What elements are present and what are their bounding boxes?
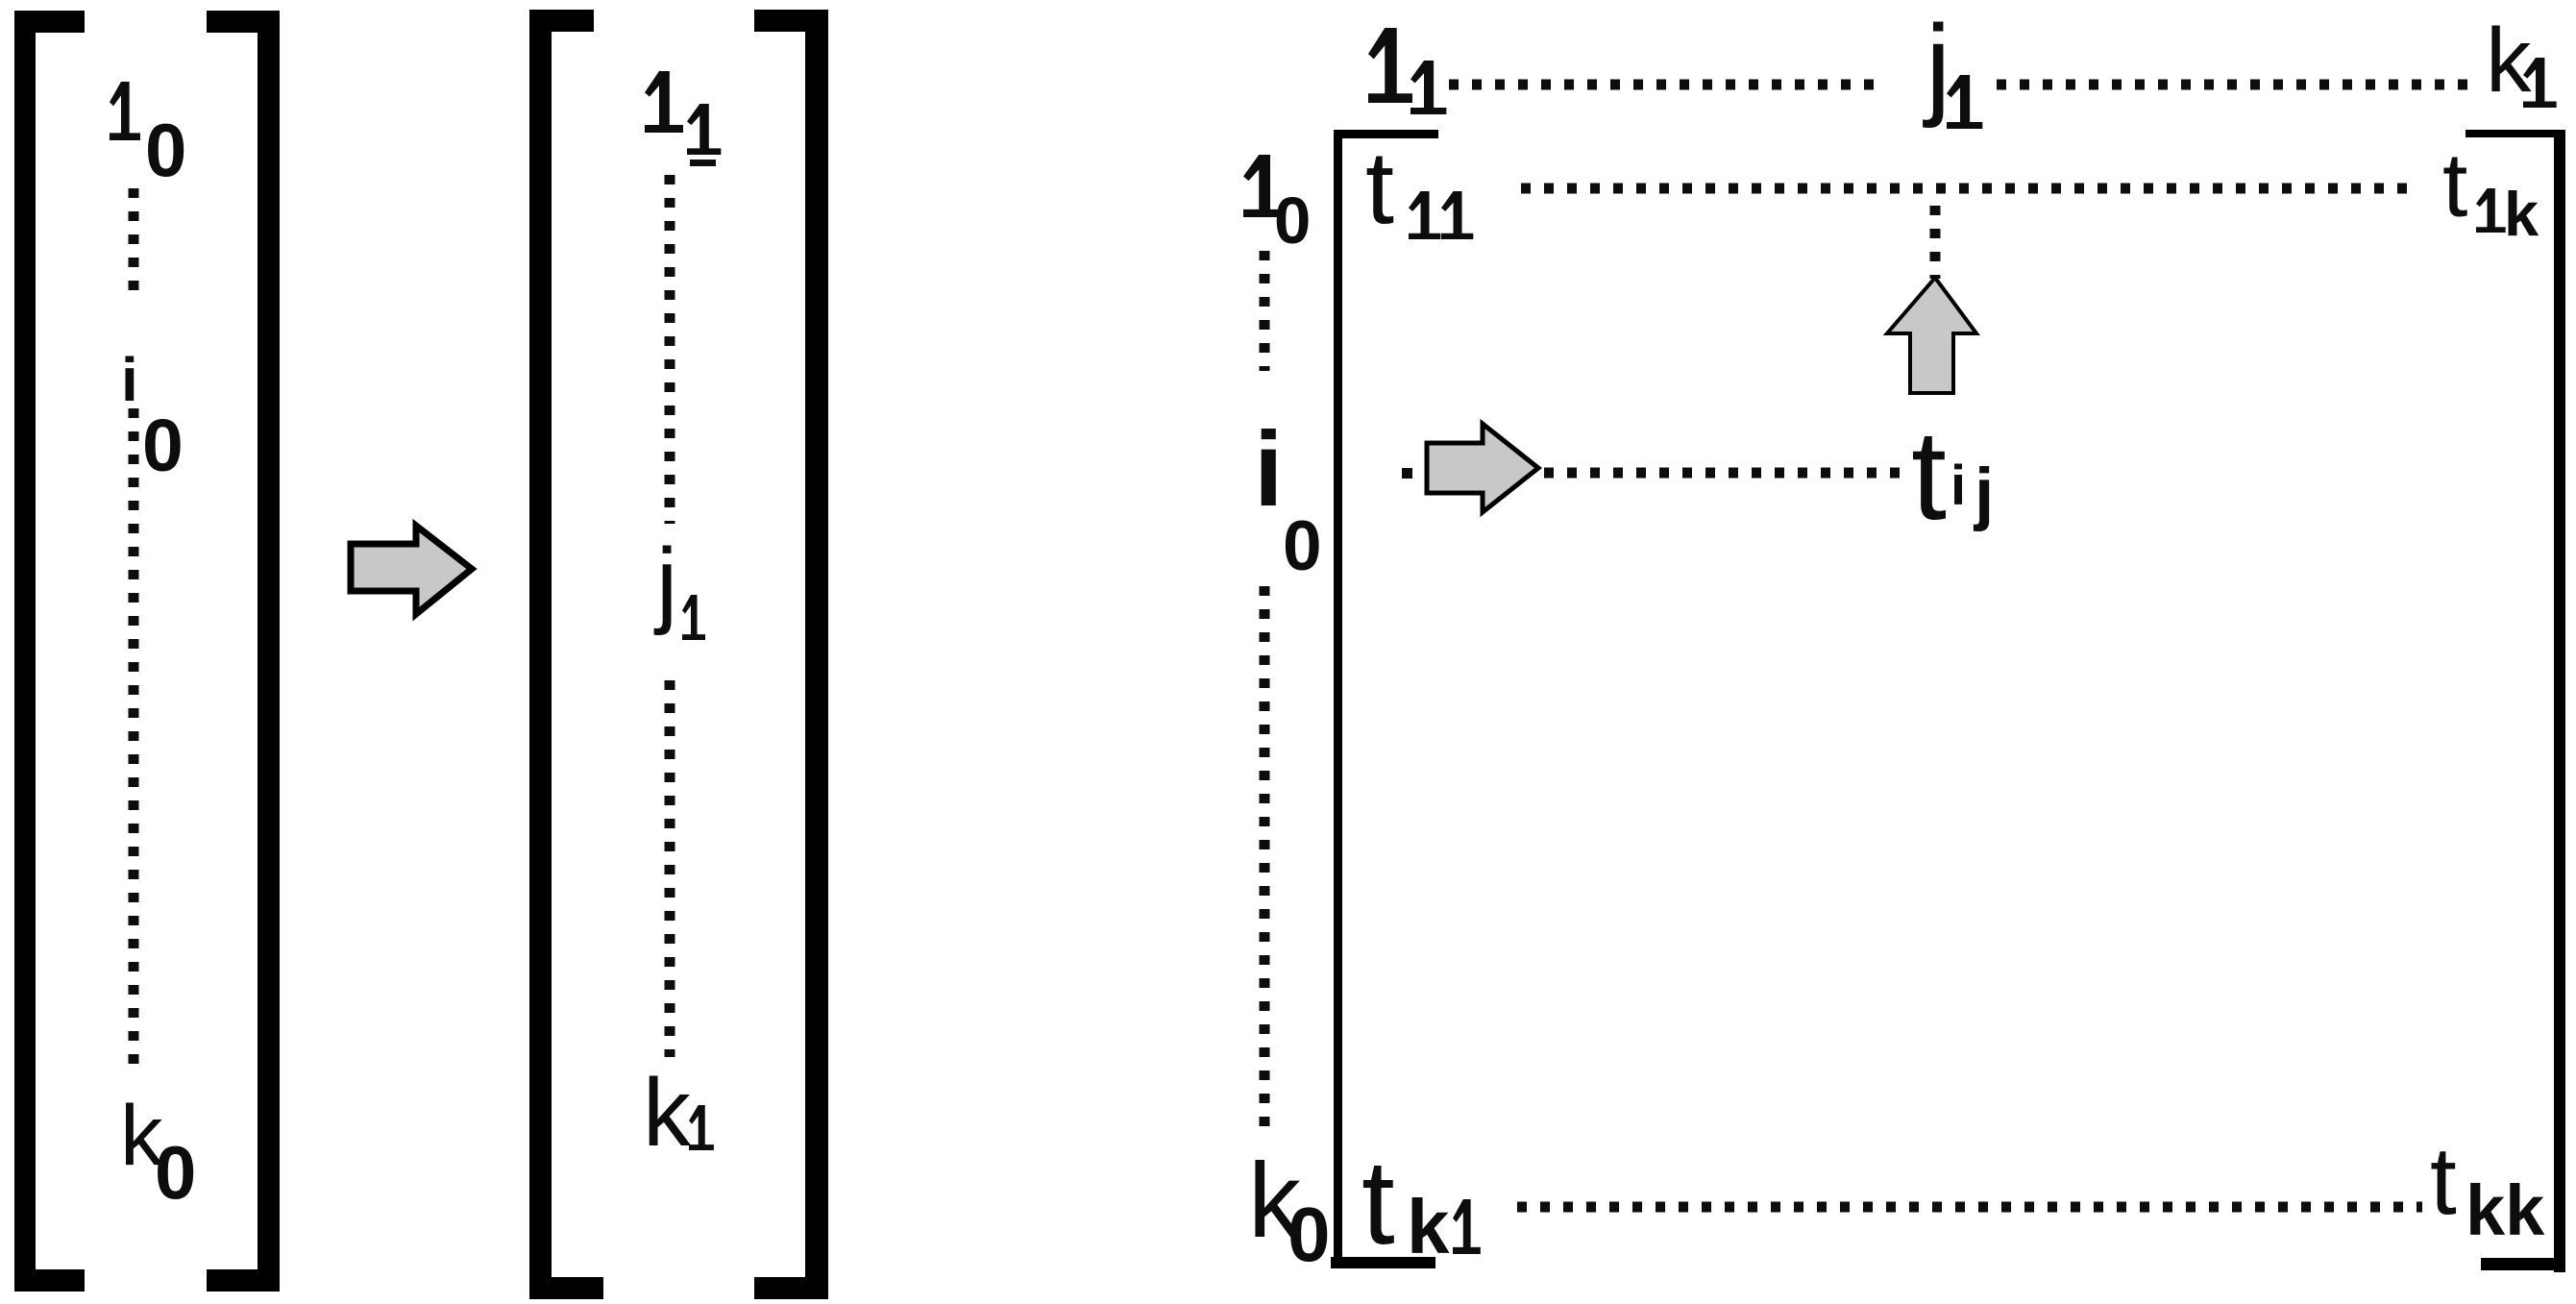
svg-text:j: j — [1973, 455, 1994, 532]
matrix bottom-left corner bar — [1331, 1257, 1435, 1268]
matrix top-left corner bar — [1334, 130, 1438, 138]
middle vector bracket ] — [754, 10, 828, 1299]
dotted line — [129, 408, 139, 1067]
svg-text:i: i — [121, 345, 138, 414]
row label 1_0 — [1243, 155, 1311, 258]
big gray arrow between vectors — [351, 526, 472, 614]
svg-text:0: 0 — [1274, 184, 1311, 258]
dotted line — [1521, 184, 2407, 194]
svg-text:t: t — [2430, 1127, 2457, 1235]
svg-text:t: t — [1362, 1136, 1395, 1269]
label 1_1 top of middle vector — [645, 71, 721, 166]
matrix right bracket line — [2554, 130, 2565, 1272]
svg-text:0: 0 — [145, 108, 186, 192]
left vector bracket [ — [14, 11, 85, 1292]
row label k_0 — [1248, 1142, 1331, 1277]
entry t_1k — [2442, 135, 2539, 249]
left vector bracket ] — [207, 11, 280, 1292]
svg-text:j: j — [1923, 2, 1950, 130]
svg-text:j: j — [653, 529, 677, 636]
column label k_1 — [2486, 10, 2557, 111]
middle vector bracket [ — [529, 10, 603, 1299]
svg-text:0: 0 — [142, 405, 184, 487]
column label 1_1 — [1368, 28, 1446, 114]
dotted line — [1997, 80, 2475, 90]
svg-text:t: t — [1911, 405, 1947, 547]
dotted line — [665, 175, 675, 524]
matrix top-right corner bar — [2466, 130, 2565, 137]
dotted line — [1260, 586, 1270, 1134]
svg-text:k: k — [2486, 10, 2532, 111]
label i_0 middle of left vector — [121, 345, 184, 487]
vertical dotted line under j column — [1930, 206, 1941, 279]
svg-text:t: t — [1365, 129, 1394, 245]
entry t_11 — [1365, 129, 1473, 245]
svg-text:kk: kk — [2466, 1170, 2545, 1250]
svg-text:k: k — [2504, 179, 2539, 249]
label k_0 bottom of left vector — [120, 1087, 196, 1215]
label k_1 bottom of middle vector — [643, 1059, 714, 1167]
matrix bottom-right corner bar — [2481, 1258, 2565, 1270]
dotted line — [1517, 1202, 2422, 1213]
dotted line — [1260, 251, 1270, 371]
svg-text:k: k — [1407, 1184, 1450, 1269]
svg-text:k: k — [643, 1059, 692, 1167]
column label j_1 — [1923, 2, 1982, 130]
svg-text:0: 0 — [155, 1130, 196, 1215]
single dot before row arrow — [1402, 468, 1412, 479]
entry t_k1 — [1362, 1136, 1481, 1269]
svg-text:t: t — [2442, 135, 2467, 236]
label 1_0 top of left vector — [110, 82, 186, 192]
row label i_0 — [1254, 410, 1322, 585]
svg-text:0: 0 — [1283, 507, 1322, 585]
dotted line — [129, 188, 139, 290]
dotted line — [1544, 468, 1904, 479]
up gray arrow — [1887, 278, 1976, 393]
dotted line — [665, 680, 675, 1057]
label j_1 middle of middle vector — [653, 529, 705, 640]
dotted line — [1449, 80, 1881, 90]
small gray arrow in row i — [1427, 424, 1538, 512]
entry t_kk — [2430, 1127, 2545, 1250]
matrix left bracket line — [1334, 130, 1342, 1268]
svg-text:0: 0 — [1288, 1192, 1331, 1277]
svg-text:i: i — [1254, 410, 1284, 529]
entry t_ij — [1911, 405, 1994, 547]
svg-text:i: i — [1950, 455, 1966, 517]
